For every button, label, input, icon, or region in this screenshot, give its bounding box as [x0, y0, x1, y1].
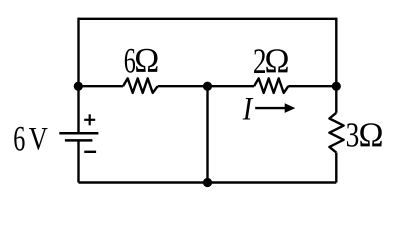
- svg-text:Ω: Ω: [265, 43, 290, 81]
- wire bottom rail: [79, 181, 337, 183]
- resistor 3-ohm vertical zigzag: [329, 113, 343, 153]
- svg-text:Ω: Ω: [359, 117, 384, 155]
- node D: junction dot bottom center: [203, 178, 212, 187]
- battery V1 bottom plate (-, short): [65, 139, 93, 142]
- node B: junction dot center top: [203, 82, 212, 91]
- current arrow: [255, 103, 295, 113]
- svg-text:I: I: [242, 91, 254, 127]
- wire middle row: center node to 2-ohm resistor: [208, 85, 255, 87]
- wire left rail upper (top rail down to battery top plate): [77, 18, 79, 134]
- wire middle vertical (center node down to bottom rail): [206, 86, 208, 182]
- svg-text:V: V: [29, 121, 48, 157]
- battery V1 top plate (+, long): [59, 132, 98, 135]
- label 6 V (battery value): [13, 119, 48, 159]
- resistor 6-ohm zigzag: [123, 78, 158, 93]
- resistor 2-ohm zigzag: [254, 78, 288, 93]
- svg-text:Ω: Ω: [134, 43, 159, 81]
- label 3-ohm value: [346, 116, 384, 155]
- label 2-ohm value: [253, 42, 290, 81]
- svg-text:3: 3: [346, 116, 360, 155]
- wire middle row: 6-ohm to center node: [158, 85, 208, 87]
- battery minus sign: [84, 151, 96, 153]
- svg-text:6: 6: [13, 119, 25, 159]
- wire top rail: [78, 18, 336, 20]
- wire middle row: left dot to 6-ohm resistor: [78, 85, 123, 87]
- wire right rail lower (3-ohm to bottom rail): [335, 153, 337, 183]
- wire right rail upper (top rail down to 3-ohm resistor): [335, 18, 337, 113]
- node A: junction dot left rail / middle row: [74, 82, 83, 91]
- battery plus sign: [84, 114, 95, 125]
- wire left rail lower (battery bottom plate down to bottom rail): [77, 140, 79, 182]
- node C: junction dot right rail / middle row: [332, 82, 341, 91]
- label 6-ohm value: [124, 41, 159, 81]
- wire middle row: 2-ohm to right rail: [288, 85, 336, 87]
